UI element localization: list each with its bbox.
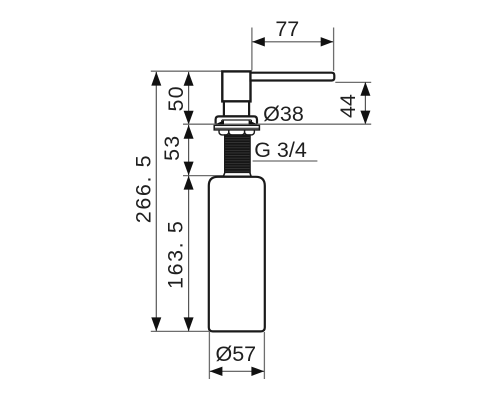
- washer plate: [214, 125, 259, 130]
- svg-text:50: 50: [164, 85, 188, 111]
- svg-text:Ø38: Ø38: [263, 102, 304, 126]
- dimension 77 label: [275, 17, 299, 41]
- dimension 266.5 label: [131, 154, 155, 223]
- svg-text:77: 77: [275, 17, 299, 41]
- dimension O57: [209, 332, 264, 379]
- svg-text:53: 53: [160, 135, 184, 161]
- dimension 50 label: [164, 85, 188, 111]
- dimension 44: [360, 82, 370, 124]
- pump head body: [222, 71, 250, 101]
- dimension 163.5 label: [164, 220, 188, 289]
- threaded shank G3/4: [225, 135, 251, 173]
- extension line mounting plane (long, through rosette, under O38 and 44): [183, 123, 371, 125]
- svg-text:44: 44: [336, 94, 360, 118]
- nut facets: [219, 128, 254, 135]
- svg-text:163. 5: 163. 5: [164, 220, 188, 289]
- thread size label G 3/4: [254, 138, 307, 162]
- dimension O57 label: [215, 342, 256, 366]
- dimension O38 label: [263, 102, 304, 126]
- extension line spout-bottom right: [335, 81, 371, 83]
- bottle: [209, 177, 265, 332]
- rosette inner step: [222, 120, 252, 125]
- dimension 53 label: [160, 135, 184, 161]
- dimension O38 arrows: [215, 120, 257, 124]
- svg-text:Ø57: Ø57: [215, 342, 256, 366]
- extension line thread-bottom / bottle-top boundary: [183, 175, 225, 177]
- dimension 266.5 line: [151, 72, 161, 331]
- pump head neck: [224, 101, 249, 116]
- thread bottom flare: [223, 172, 251, 176]
- dimension 44 label: [336, 94, 360, 118]
- svg-text:G 3/4: G 3/4: [254, 138, 307, 162]
- extension line head-top left: [151, 70, 223, 72]
- rosette (flange cap): [216, 116, 257, 124]
- extension line bottle-bottom left: [151, 330, 210, 332]
- leader line G 3/4: [253, 160, 318, 162]
- svg-text:266. 5: 266. 5: [131, 154, 155, 223]
- dimension chain line 50/53/163.5: [184, 72, 194, 331]
- dimension 77: [252, 28, 334, 71]
- spout: [251, 73, 335, 81]
